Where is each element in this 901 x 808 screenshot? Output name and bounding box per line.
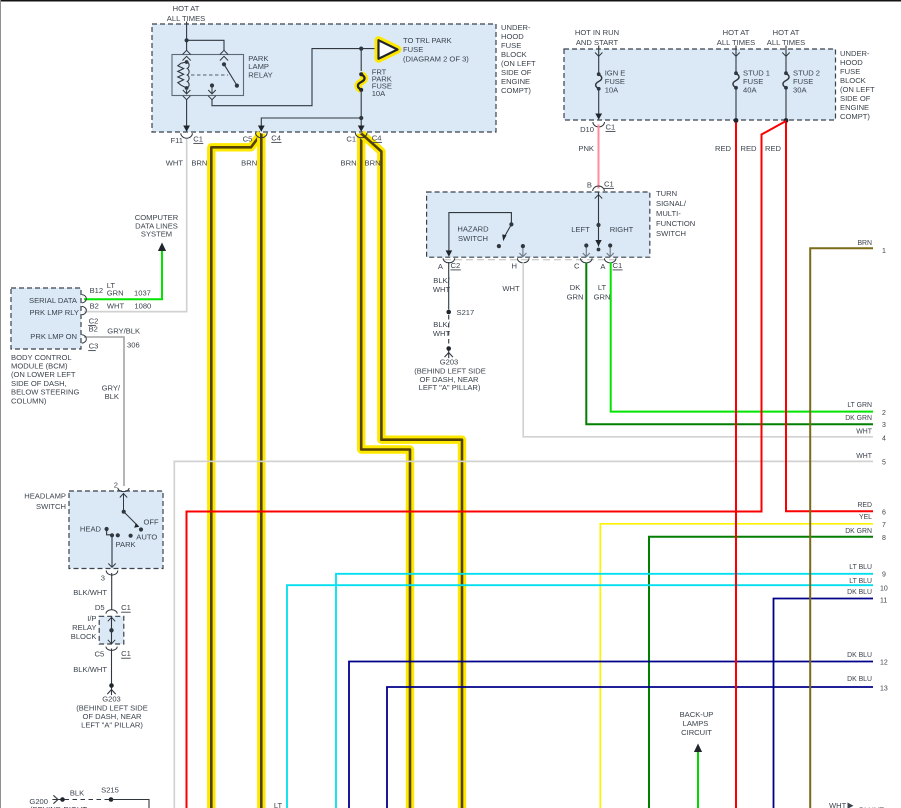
svg-text:11: 11 <box>880 597 887 604</box>
svg-text:FUSE: FUSE <box>501 41 521 50</box>
connector arc headlamp pin 2 <box>118 488 129 492</box>
node: turn signal feed junction <box>596 223 600 227</box>
ground G200 <box>52 795 64 803</box>
svg-text:9: 9 <box>882 571 886 578</box>
underhood fuse block box (right) <box>564 49 836 120</box>
svg-text:LT BLU: LT BLU <box>849 578 872 585</box>
contact A (right turn) <box>607 243 614 256</box>
svg-text:DK BLU: DK BLU <box>847 676 872 683</box>
svg-text:HOT IN RUN: HOT IN RUN <box>575 28 619 37</box>
label B12 LT GRN 1037 <box>90 281 151 298</box>
relay switch arm <box>224 64 239 87</box>
svg-text:BLK/: BLK/ <box>433 320 450 329</box>
headlamp switch feed arrow <box>120 493 127 512</box>
label BACK-UP LAMPS CIRCUIT <box>680 710 714 737</box>
label WHT blunt (clipped bottom right) <box>829 801 884 808</box>
svg-text:C1: C1 <box>121 649 131 658</box>
svg-text:SIDE OF: SIDE OF <box>840 94 871 103</box>
label (BEHIND RIGHT ...) clipped <box>30 805 87 808</box>
connector arc B/C1 (turn signal) <box>593 186 605 191</box>
label B2 WHT 1080 <box>90 302 152 311</box>
wire LT GRN 1037 serial data <box>84 243 166 300</box>
svg-text:C5: C5 <box>94 650 104 659</box>
label UNDER-HOOD FUSE BLOCK (left) <box>501 23 536 95</box>
svg-text:FUSE: FUSE <box>840 67 860 76</box>
label 2 (headlamp pin) <box>114 480 118 489</box>
label TO TRL PARK FUSE <box>403 36 469 64</box>
label LT GRN (under A) <box>594 283 611 302</box>
svg-text:UNDER-: UNDER- <box>501 23 531 32</box>
label C2 B2 <box>88 316 98 333</box>
svg-text:4: 4 <box>882 435 886 442</box>
splice S215 <box>101 786 119 802</box>
label UNDER-HOOD FUSE BLOCK (right) <box>840 49 875 121</box>
wire BLK/WHT headlamp to I/P relay block <box>111 573 113 610</box>
label BLK/WHT (upper) <box>433 276 451 294</box>
connector arc D5/C1 <box>106 610 117 614</box>
svg-text:I/P: I/P <box>87 614 96 623</box>
svg-text:C1: C1 <box>193 134 203 143</box>
relay switch output contact <box>210 83 214 87</box>
BCM pin bracket B12 <box>82 295 87 303</box>
svg-text:1037: 1037 <box>134 288 151 297</box>
wire WHT 1080 prk lmp rly <box>84 139 187 312</box>
hazard switch wire from pin A <box>446 213 512 257</box>
label D5 C1 <box>95 603 131 612</box>
svg-text:LEFT "A" PILLAR): LEFT "A" PILLAR) <box>419 383 481 392</box>
svg-text:GRN: GRN <box>594 292 611 301</box>
svg-text:C3: C3 <box>89 342 99 351</box>
svg-text:LT GRN: LT GRN <box>847 402 872 409</box>
svg-text:HOT AT: HOT AT <box>173 4 200 13</box>
label HOT AT ALL TIMES (stud1) <box>717 28 755 47</box>
svg-text:BODY CONTROL: BODY CONTROL <box>11 353 72 362</box>
svg-text:BLOCK: BLOCK <box>71 632 97 641</box>
svg-text:3: 3 <box>101 573 105 582</box>
wire: turn signal B feed internal <box>595 193 602 247</box>
svg-text:RED: RED <box>765 144 782 153</box>
svg-text:SWITCH: SWITCH <box>458 234 488 243</box>
wire S215 to bottom edge <box>111 800 149 808</box>
svg-text:13: 13 <box>880 685 888 692</box>
highlighted BRN wire 3 (C1 to bottom) <box>361 134 410 808</box>
label GRY/BLK (vertical run) <box>102 383 121 401</box>
label C1 C4 (right pair) <box>346 133 382 143</box>
headlamp switch box <box>69 491 163 569</box>
svg-text:RELAY: RELAY <box>72 623 96 632</box>
svg-text:(DIAGRAM 2 OF 3): (DIAGRAM 2 OF 3) <box>403 54 469 63</box>
svg-text:B2: B2 <box>89 324 98 333</box>
svg-text:1: 1 <box>882 248 886 255</box>
I/P relay block box <box>99 616 124 644</box>
label 3 <box>101 573 105 582</box>
connector arc C <box>581 258 593 263</box>
svg-text:TURN: TURN <box>656 189 677 198</box>
svg-text:FUNCTION: FUNCTION <box>656 219 695 228</box>
label STUD 1 FUSE 40A <box>743 69 770 95</box>
label DK GRN (under C) <box>567 283 584 302</box>
relay coil loops <box>187 62 190 88</box>
hazard switch throw contact <box>497 244 501 248</box>
wire: relay switch to trailer fuse node <box>212 49 377 106</box>
svg-text:C5: C5 <box>243 134 253 143</box>
connector arc headlamp pin 3 <box>106 571 118 576</box>
svg-text:(ON LEFT: (ON LEFT <box>840 85 875 94</box>
svg-text:BRN: BRN <box>241 158 257 167</box>
park lamp relay U-box <box>172 55 244 96</box>
svg-text:C1: C1 <box>121 603 131 612</box>
label BLK/WHT (lower) <box>433 320 451 338</box>
svg-text:WHT: WHT <box>502 284 520 293</box>
wire green backup lamps circuit <box>694 744 702 808</box>
svg-text:HOT AT: HOT AT <box>773 28 800 37</box>
svg-text:G203: G203 <box>440 357 459 366</box>
svg-text:STUD 1: STUD 1 <box>743 69 770 78</box>
label HAZARD SWITCH <box>457 225 489 243</box>
svg-text:BLK: BLK <box>105 392 119 401</box>
svg-text:WHT: WHT <box>856 453 872 460</box>
svg-text:7: 7 <box>882 522 886 529</box>
svg-text:GRY/BLK: GRY/BLK <box>107 326 140 335</box>
svg-text:WHT: WHT <box>107 302 125 311</box>
svg-text:MODULE (BCM): MODULE (BCM) <box>11 362 68 371</box>
svg-text:RELAY: RELAY <box>248 70 272 79</box>
svg-text:BACK-UP: BACK-UP <box>680 710 714 719</box>
svg-text:DK GRN: DK GRN <box>845 528 872 535</box>
svg-text:HOOD: HOOD <box>840 58 863 67</box>
label C5 C4 <box>243 133 282 143</box>
svg-text:CIRCUIT: CIRCUIT <box>681 728 712 737</box>
svg-text:LEFT "A" PILLAR): LEFT "A" PILLAR) <box>81 720 143 729</box>
svg-text:BLK/: BLK/ <box>433 276 450 285</box>
svg-text:10A: 10A <box>605 86 619 95</box>
svg-text:WHT: WHT <box>829 801 847 808</box>
svg-text:RIGHT: RIGHT <box>610 225 634 234</box>
label HOT AT ALL TIMES (stud2) <box>767 28 805 47</box>
wire RED stud2 branch to left down <box>187 121 787 808</box>
node: fuse output junction <box>359 116 363 120</box>
wire BLK/WHT to G203 <box>111 649 113 684</box>
wire: HOT AT ALL TIMES feed into left fuse block <box>186 22 188 41</box>
node: trailer park fuse tap <box>359 47 363 51</box>
svg-text:RED: RED <box>857 502 872 509</box>
contact OFF <box>139 517 159 531</box>
wire headlamp output to pin 3 <box>108 535 115 567</box>
svg-text:ALL TIMES: ALL TIMES <box>767 38 805 47</box>
svg-text:SWITCH: SWITCH <box>36 502 66 511</box>
relay coil top node <box>185 60 189 64</box>
svg-text:12: 12 <box>880 659 888 666</box>
label COMPUTER DATA LINES SYSTEM <box>135 213 179 239</box>
label PRK LMP ON <box>30 332 77 341</box>
connector arc D10/C1 <box>593 122 605 127</box>
svg-text:WHT: WHT <box>166 158 184 167</box>
wire: stud2 fuse to box edge <box>785 88 787 121</box>
wire: relay coil pin down to F11 exit <box>186 100 188 132</box>
svg-text:DK BLU: DK BLU <box>847 589 872 596</box>
svg-text:F11: F11 <box>170 136 183 145</box>
label H <box>512 261 517 270</box>
label WHT (under H) <box>502 284 520 293</box>
connector arc C1/C4 <box>355 133 367 138</box>
wire LT BLU line 9 <box>336 574 873 808</box>
node park junction <box>110 533 114 537</box>
svg-text:HEAD: HEAD <box>80 525 102 534</box>
svg-text:DK BLU: DK BLU <box>847 652 872 659</box>
wire RED stud1 straight down <box>735 123 737 808</box>
label HEADLAMP SWITCH <box>24 492 66 512</box>
svg-text:2: 2 <box>114 480 118 489</box>
contact PARK <box>116 533 136 549</box>
svg-text:AND START: AND START <box>576 38 619 47</box>
node I/P relay block <box>109 628 113 632</box>
svg-text:C1: C1 <box>346 134 356 143</box>
svg-text:2: 2 <box>882 410 886 417</box>
svg-text:WHT: WHT <box>433 329 451 338</box>
relay actuation dash-dot line <box>191 74 228 76</box>
svg-text:GRN: GRN <box>107 289 124 298</box>
exit arrow C5 <box>258 126 265 132</box>
label PNK <box>578 144 594 153</box>
svg-text:1080: 1080 <box>134 302 151 311</box>
label IGN E FUSE 10A <box>605 69 626 95</box>
svg-text:BLK: BLK <box>70 788 84 797</box>
svg-text:YEL: YEL <box>859 514 872 521</box>
svg-text:MULTI-: MULTI- <box>656 209 681 218</box>
STUD 1 FUSE 40A <box>733 71 739 89</box>
IGN E FUSE 10A <box>596 72 602 90</box>
wire WHT line 5 <box>174 461 873 808</box>
arrow: turn signal selector <box>595 240 601 251</box>
svg-text:C1: C1 <box>604 179 614 188</box>
label BLK/WHT (headlamp) <box>73 588 107 597</box>
svg-text:ALL TIMES: ALL TIMES <box>167 14 205 23</box>
svg-text:H: H <box>512 261 517 270</box>
connector strip under turn signal switch <box>444 259 618 261</box>
node: relay feed junction <box>185 38 189 42</box>
svg-text:PRK LMP RLY: PRK LMP RLY <box>29 308 79 317</box>
label G203 (BEHIND LEFT SIDE OF DASH, NEAR LEFT A PILLAR) <box>414 357 486 392</box>
dashed BLK wire G200 to S215 <box>65 799 110 801</box>
hazard switch H contact <box>519 244 526 257</box>
label TURN SIGNAL/ MULTI-FUNCTION SWITCH <box>656 189 695 238</box>
wire YEL line 7 <box>600 524 873 808</box>
svg-text:10A: 10A <box>372 89 386 98</box>
label A C1 <box>600 261 622 271</box>
svg-text:BLK/WHT: BLK/WHT <box>73 665 107 674</box>
svg-text:COMPT): COMPT) <box>840 112 870 121</box>
svg-text:LT BLU: LT BLU <box>849 564 872 571</box>
node stud2 output <box>784 118 789 123</box>
contact AUTO <box>129 532 158 541</box>
label C <box>574 261 580 270</box>
svg-text:S215: S215 <box>101 786 119 795</box>
svg-text:C1: C1 <box>613 261 623 270</box>
page left border line <box>0 0 2 808</box>
node stud1 output <box>734 118 739 123</box>
label G200 <box>29 797 48 806</box>
svg-text:SIDE OF DASH,: SIDE OF DASH, <box>11 379 67 388</box>
label LT (clipped bottom) <box>274 801 283 808</box>
svg-text:PRK LMP ON: PRK LMP ON <box>30 332 77 341</box>
connector arc C5/C1 <box>106 647 117 651</box>
svg-text:IGN E: IGN E <box>605 69 626 78</box>
label SERIAL DATA <box>29 296 78 305</box>
svg-text:BLOCK: BLOCK <box>840 76 866 85</box>
ground G203 (I/P) <box>107 683 115 695</box>
svg-text:30A: 30A <box>793 86 807 95</box>
svg-text:COMPT): COMPT) <box>501 86 531 95</box>
wire: ign fuse to D10 exit <box>595 89 602 120</box>
svg-text:SWITCH: SWITCH <box>656 229 686 238</box>
contact C (left turn) <box>583 243 590 256</box>
label I/P RELAY BLOCK <box>71 614 97 641</box>
label BLK <box>70 788 84 797</box>
headlamp switch pivot <box>122 510 126 514</box>
wire: stud2 feed <box>782 46 789 73</box>
right edge circuit labels <box>857 240 886 255</box>
connector arc A/C2 <box>443 258 455 263</box>
svg-text:LT: LT <box>598 283 607 292</box>
BCM pin bracket B2 <box>82 306 87 314</box>
exit arrow C1 <box>358 126 365 132</box>
wire BRN line 1 <box>810 248 873 808</box>
labels RED RED RED <box>715 144 732 153</box>
wire RED stud2 to line 6 <box>786 123 873 512</box>
svg-text:40A: 40A <box>743 86 757 95</box>
label G203 (BEHIND LEFT SIDE OF DASH NEAR LEFT A PILLAR) <box>76 695 148 730</box>
label BLK/WHT (to ground) <box>73 665 107 674</box>
wire: fuse tap down to FRT PARK FUSE <box>360 49 362 71</box>
svg-text:S217: S217 <box>457 308 475 317</box>
relay pin chevrons top <box>183 50 229 60</box>
svg-text:10: 10 <box>880 585 888 592</box>
svg-text:PARK: PARK <box>116 540 136 549</box>
hazard switch arm <box>502 224 511 241</box>
wire PNK (D10 to turn signal B) <box>598 125 600 189</box>
svg-text:BRN: BRN <box>857 240 872 247</box>
wire DK BLU line 12 <box>349 662 873 808</box>
svg-text:306: 306 <box>127 341 140 350</box>
svg-text:SYSTEM: SYSTEM <box>141 230 172 239</box>
svg-text:C2: C2 <box>451 261 461 270</box>
svg-text:5: 5 <box>882 459 886 466</box>
svg-text:HAZARD: HAZARD <box>457 225 489 234</box>
svg-text:C1: C1 <box>606 122 616 131</box>
svg-text:UNDER-: UNDER- <box>840 49 870 58</box>
label BODY CONTROL MODULE (BCM) <box>11 353 79 406</box>
wire DK BLU line 13 <box>387 687 873 808</box>
svg-text:HEADLAMP: HEADLAMP <box>24 492 66 501</box>
connector arc F11/C1 <box>181 133 193 138</box>
svg-text:STUD 2: STUD 2 <box>793 69 820 78</box>
symbol: TO TRL PARK FUSE triangle (highlighted) <box>379 40 398 59</box>
svg-text:6: 6 <box>882 509 886 516</box>
exit arrow F11 <box>183 126 190 132</box>
resistor (relay coil parallel resistor) <box>178 62 187 88</box>
svg-text:WHT: WHT <box>433 285 451 294</box>
label C5 C1 <box>94 649 130 659</box>
page top border line <box>0 0 901 2</box>
svg-text:BELOW STEERING: BELOW STEERING <box>11 388 79 397</box>
hazard switch pivot <box>509 222 513 226</box>
turn signal / multi-function switch box <box>427 192 650 257</box>
svg-text:B2: B2 <box>90 302 99 311</box>
FRT PARK FUSE 10A (highlighted) <box>358 72 365 92</box>
svg-text:FUSE: FUSE <box>403 45 423 54</box>
svg-text:LT: LT <box>274 801 283 808</box>
svg-text:G203: G203 <box>102 695 121 704</box>
svg-text:BRN: BRN <box>191 158 207 167</box>
wire: ign feed into fuse <box>595 46 602 74</box>
svg-text:BRN: BRN <box>365 158 381 167</box>
label HOT IN RUN AND START <box>575 28 619 47</box>
svg-text:C4: C4 <box>372 133 382 142</box>
label FRT PARK FUSE 10A <box>372 67 392 98</box>
ground G203 (near turn signal) <box>445 346 453 358</box>
contact HEAD <box>80 525 109 534</box>
STUD 2 FUSE 30A <box>783 71 789 89</box>
label LEFT <box>571 225 590 234</box>
svg-text:D10: D10 <box>580 125 594 134</box>
svg-text:HOT AT: HOT AT <box>723 28 750 37</box>
svg-text:HOOD: HOOD <box>501 32 524 41</box>
label WHT under F11 <box>166 158 184 167</box>
wire: stud1 feed <box>732 46 739 73</box>
body control module box <box>11 288 81 349</box>
wire: stud1 fuse to box edge <box>735 88 737 121</box>
wire DK GRN line 3 (left turn) <box>586 263 873 425</box>
labels BRN x4 <box>191 158 207 167</box>
svg-text:WHT: WHT <box>856 429 872 436</box>
relay coil bottom node <box>185 86 189 90</box>
dashed BLK/WHT wire to G203 <box>448 315 450 345</box>
svg-text:PNK: PNK <box>578 144 594 153</box>
svg-text:SIDE OF: SIDE OF <box>501 68 532 77</box>
wire through I/P relay block <box>108 617 115 644</box>
svg-text:BLK/WHT: BLK/WHT <box>73 588 107 597</box>
svg-text:GRN: GRN <box>567 292 584 301</box>
svg-text:C4: C4 <box>271 133 281 142</box>
connector arc H <box>517 258 529 263</box>
svg-text:OFF: OFF <box>144 517 160 526</box>
svg-text:(ON LOWER LEFT: (ON LOWER LEFT <box>11 370 76 379</box>
relay switch pivot <box>222 62 226 66</box>
wire HEAD to PARK junction <box>107 529 112 535</box>
svg-text:TO TRL PARK: TO TRL PARK <box>403 36 452 45</box>
relay bottom pin arrows <box>183 88 216 100</box>
wire: fuse bottom to C5/C1 exits <box>261 90 361 131</box>
label A C2 <box>438 261 461 271</box>
label F11 C1 <box>170 134 203 145</box>
svg-text:DK: DK <box>570 283 581 292</box>
svg-text:B12: B12 <box>90 286 104 295</box>
wire DK BLU line 11 <box>774 599 874 808</box>
label C3 306 <box>88 341 139 351</box>
svg-text:RED: RED <box>715 144 732 153</box>
label STUD 2 FUSE 30A <box>793 69 820 95</box>
svg-text:BRN: BRN <box>341 158 357 167</box>
svg-text:B: B <box>587 181 592 190</box>
svg-text:C: C <box>574 261 580 270</box>
svg-text:8: 8 <box>882 535 886 542</box>
connector arc C5/C4 <box>256 133 268 138</box>
svg-text:DK GRN: DK GRN <box>845 415 872 422</box>
wire: junction to relay coil and switch pins <box>187 40 224 50</box>
svg-text:D5: D5 <box>95 603 105 612</box>
svg-text:COLUMN): COLUMN) <box>11 396 47 405</box>
wire DK GRN line 8 <box>649 537 873 808</box>
